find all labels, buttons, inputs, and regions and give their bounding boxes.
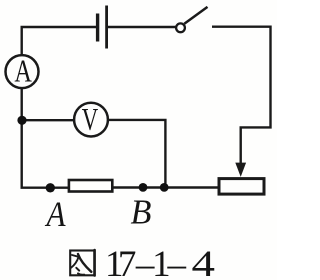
svg-text:4: 4 [191, 244, 214, 280]
svg-text:–: – [166, 244, 186, 280]
svg-text:A: A [14, 54, 32, 89]
svg-text:V: V [82, 101, 99, 137]
svg-text:A: A [45, 195, 66, 235]
svg-text:B: B [130, 192, 151, 232]
svg-text:7: 7 [118, 244, 137, 280]
